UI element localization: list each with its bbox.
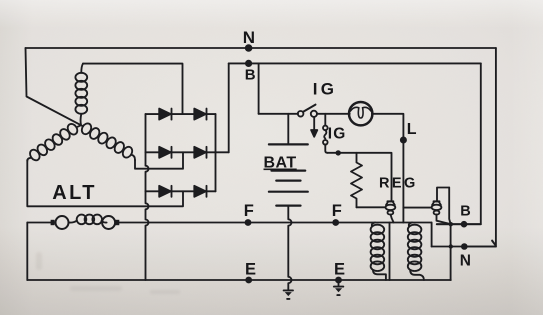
resistor R (field resistor) (351, 153, 362, 208)
stator coil S1 (top phase) (75, 64, 87, 126)
node: junction dot on IG row (336, 150, 341, 155)
wire: vertical between relay coils down to E bus (389, 223, 391, 281)
wire: contact CT2 arm from L line (403, 207, 431, 209)
node L (400, 137, 407, 144)
lamp (charge indicator) (349, 102, 372, 125)
battery BAT (269, 144, 308, 205)
brush B1 (51, 220, 55, 225)
node N2 (461, 243, 468, 250)
diode D6 (194, 186, 206, 197)
contact set CT2 (voltage relay points) (432, 201, 451, 224)
diode D5 (159, 186, 171, 197)
stator coil S3 (right phase) (80, 122, 135, 160)
slip ring right (102, 216, 115, 229)
wire: F net corner down to N row (431, 223, 433, 247)
brush B2 (115, 220, 119, 225)
rotor field coil (68, 215, 106, 225)
wire: phase1 top lead to bridge row1 (83, 64, 183, 115)
wire: resistor to regulator contact arm (357, 206, 386, 208)
node E2 (335, 277, 342, 284)
ground G1 (284, 290, 293, 299)
wire: switch to lamp (317, 113, 350, 115)
wire: drop from B bus to ignition row (258, 63, 260, 113)
tick: frame corner mark (492, 241, 495, 245)
contact set CT1 (voltage regulator points) (386, 201, 396, 222)
wire: phase3 left lead down and across to bridge row3 tap (27, 160, 183, 206)
rectifier bridge row2 wire (146, 151, 229, 153)
wire: rotor line left segment (27, 222, 50, 224)
wire: left slant from N bus to stator star point (26, 48, 82, 125)
wire: B bus horizontal (229, 62, 481, 64)
wire: bridge left rail with crossover hops (146, 114, 149, 280)
wire: N row to frame (432, 246, 496, 248)
arrow: ignition feed down-arrow (311, 117, 317, 137)
diode D1 (159, 109, 171, 120)
node B2 (461, 221, 468, 228)
wire: lamp to L terminal drop (372, 114, 404, 223)
wire: B+ feed from bridge row2 up to B bus (228, 63, 230, 152)
node: knot at B row crossing (449, 222, 453, 226)
wire: ignition row to switch (259, 113, 298, 115)
battery top lead (287, 114, 289, 145)
diode D2 (194, 109, 206, 120)
diode D4 (194, 147, 206, 158)
wire: F line from rotor to regulator (119, 222, 431, 224)
wire: IG row into regulator (327, 153, 391, 201)
node E1 (245, 277, 252, 284)
smudge: faint print bleed bottom left (36, 252, 180, 294)
node F2 (332, 219, 339, 226)
relay coil RC2 (408, 223, 424, 281)
wire: B row (relay output to B terminal) (437, 223, 481, 225)
slip ring left (56, 216, 69, 229)
relay coil RC1 (371, 223, 386, 281)
stator coil S2 (left phase) (27, 122, 81, 162)
node N1 (245, 44, 253, 52)
wire: B bus right side down to B row (437, 63, 481, 224)
wire: rotor field line left drop to E bus (26, 223, 28, 281)
rectifier bridge row3 wire (146, 190, 216, 192)
ignition switch IG (298, 105, 317, 117)
node F1 (245, 219, 252, 226)
node B1 (245, 60, 252, 67)
wire: contact CT2 top link (437, 188, 449, 202)
ground G2 (334, 280, 343, 295)
wire: N bus right side down to N row (468, 48, 496, 247)
node: knot at N row crossing (449, 244, 453, 248)
wire: right interior vertical (contact link down to E bus) (449, 188, 450, 281)
wire: phase2 lead to bridge row2 tap (135, 152, 183, 168)
battery bottom lead with crossover hops to ground (288, 206, 291, 290)
wire: bridge right rail (215, 114, 217, 191)
rectifier bridge row1 wire (146, 113, 216, 115)
diode D3 (159, 147, 171, 158)
connector: IG terminal pair (323, 114, 328, 153)
wire: E bus bottom horizontal (27, 279, 451, 281)
wire: N bus top horizontal (26, 47, 496, 49)
